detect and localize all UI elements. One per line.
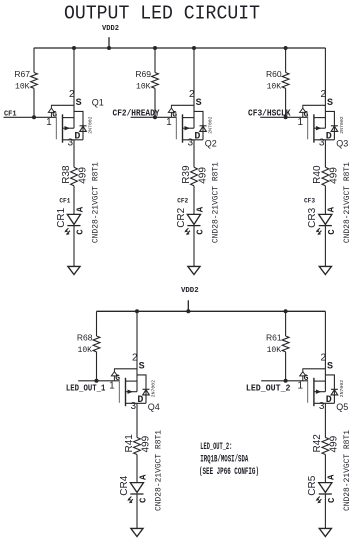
wire input net LED_OUT_1 [78,380,119,382]
svg-text:CND28-21VGCT R8T1: CND28-21VGCT R8T1 [155,430,164,511]
svg-text:499: 499 [77,167,88,184]
svg-text:1: 1 [298,381,304,392]
svg-text:10K: 10K [267,84,282,92]
svg-text:3: 3 [319,401,325,412]
wire CR4 cathode to ground [136,494,138,528]
wire CR2 cathode to ground [193,226,195,267]
svg-text:CND28-21VGCT R8T1: CND28-21VGCT R8T1 [92,162,101,243]
svg-text:1: 1 [46,117,52,128]
svg-text:S: S [327,98,333,109]
junction on VDD2 rail at source column [192,46,196,50]
wire VDD2 bottom rail [97,310,326,312]
svg-text:Q4: Q4 [148,402,160,412]
LED CR4 [119,474,149,503]
svg-text:499: 499 [329,435,340,452]
svg-text:Q3: Q3 [336,138,348,148]
svg-text:2: 2 [189,89,195,100]
svg-text:G: G [52,111,57,120]
svg-text:VDD2: VDD2 [102,25,119,33]
wire Q2 drain to R39 [193,140,195,168]
svg-text:D: D [194,132,200,143]
wire VDD2 rail to Q1 source [73,48,75,128]
svg-text:499: 499 [329,167,340,184]
ground [188,266,200,274]
wire VDD2 rail to Q4 source [136,311,138,391]
LED CR2 [176,206,206,235]
wire Q4 drain to R41 [136,403,138,437]
transistor Q1 N-MOSFET [46,89,104,148]
wire VDD2 rail to Q2 source [193,48,195,128]
LED CR3 [307,206,337,235]
svg-text:1: 1 [298,117,304,128]
svg-text:499: 499 [140,435,151,452]
svg-text:R61: R61 [266,332,282,342]
svg-text:LED_OUT_1: LED_OUT_1 [66,383,106,393]
svg-text:C: C [76,229,86,235]
node VDD2 power symbol (bottom) [181,287,199,313]
transistor Q5 N-MOSFET [298,353,349,412]
svg-text:S: S [139,362,145,373]
wire input net LED_OUT_2 [261,380,308,382]
svg-text:CF1: CF1 [4,111,17,119]
wire CR1 cathode to ground [73,226,75,267]
svg-text:10K: 10K [267,347,282,355]
svg-text:R40: R40 [312,165,323,184]
wire CR3 cathode to ground [324,226,326,267]
svg-text:R38: R38 [61,165,72,184]
wire Q1 drain to R38 [73,140,75,168]
svg-text:CF2/HREADY: CF2/HREADY [113,109,161,119]
svg-text:D: D [74,132,80,143]
svg-text:R69: R69 [135,69,151,79]
svg-text:CR2: CR2 [176,207,187,227]
svg-text:G: G [304,111,309,120]
transistor Q4 N-MOSFET [109,353,160,412]
svg-text:CR3: CR3 [307,207,318,227]
svg-text:D: D [326,395,332,406]
svg-text:CR1: CR1 [56,207,67,227]
svg-text:3: 3 [130,401,136,412]
svg-text:R39: R39 [181,165,192,184]
svg-text:C: C [139,497,149,503]
ground [319,528,331,536]
svg-text:CND28-21VGCT R8T1: CND28-21VGCT R8T1 [343,162,352,243]
junction of pull-up and input wire [284,379,288,383]
resistor R69 10K pull-up [135,48,158,117]
ground [319,266,331,274]
resistor R60 10K pull-up [266,48,289,117]
svg-text:2: 2 [132,353,138,364]
svg-text:S: S [196,98,202,109]
svg-text:CF3: CF3 [304,197,315,204]
svg-text:R67: R67 [14,69,30,79]
junction on VDD2 rail at source column [135,309,139,313]
svg-text:A: A [138,474,148,480]
wire R42 to CR5 anode [324,455,326,483]
transistor Q3 N-MOSFET [298,89,349,148]
resistor R42 499 series [312,434,340,455]
svg-text:IRQ1B/MOSI/SDA: IRQ1B/MOSI/SDA [200,454,248,466]
svg-text:499: 499 [197,167,208,184]
svg-text:3: 3 [319,137,325,148]
svg-text:CF3/HSCLK: CF3/HSCLK [248,109,291,119]
wire CR5 cathode to ground [324,494,326,528]
wire R40 to CR3 anode [324,186,326,215]
svg-text:VDD2: VDD2 [181,287,199,295]
transistor Q2 N-MOSFET [166,89,217,148]
svg-text:2: 2 [320,89,326,100]
svg-text:A: A [195,206,205,212]
wire input net CF2/HREADY [131,116,177,118]
wire input net CF1 [4,116,57,118]
resistor R61 10K pull-up [266,311,289,381]
svg-text:R42: R42 [312,434,323,453]
junction of pull-up and input wire [284,115,288,119]
LED CR5 [307,474,337,503]
svg-text:2N7002: 2N7002 [151,380,157,397]
svg-text:10K: 10K [15,84,30,92]
svg-text:CR5: CR5 [307,475,318,495]
wire R38 to CR1 anode [73,186,75,215]
svg-text:CND28-21VGCT R8T1: CND28-21VGCT R8T1 [343,430,352,511]
wire R41 to CR4 anode [136,455,138,483]
svg-text:D: D [137,395,143,406]
svg-text:LED_OUT_2:: LED_OUT_2: [200,442,232,453]
svg-text:G: G [304,374,309,383]
svg-text:G: G [172,111,177,120]
svg-text:2: 2 [320,353,326,364]
svg-text:A: A [327,206,337,212]
svg-text:2N7002: 2N7002 [339,116,345,133]
svg-text:3: 3 [187,137,193,148]
junction on VDD2 rail at resistor column [284,46,288,50]
resistor R41 499 series [124,434,152,455]
wire VDD2 rail to Q3 source [324,48,326,128]
junction on VDD2 rail at source column [72,46,76,50]
svg-text:2N7002: 2N7002 [88,116,94,133]
svg-text:R60: R60 [266,69,282,79]
svg-text:C: C [196,229,206,235]
resistor R39 499 series [181,165,209,186]
svg-text:1: 1 [166,117,172,128]
svg-text:LED_OUT_2: LED_OUT_2 [246,383,291,393]
svg-text:S: S [76,98,82,109]
svg-text:Q2: Q2 [205,138,217,148]
svg-text:(SEE JP66 CONFIG): (SEE JP66 CONFIG) [199,466,259,478]
resistor R40 499 series [312,165,340,186]
svg-text:10K: 10K [136,84,151,92]
ground [68,266,80,274]
svg-text:OUTPUT LED CIRCUIT: OUTPUT LED CIRCUIT [64,2,260,24]
svg-text:R68: R68 [77,332,93,342]
note LED_OUT_2 configuration text [199,442,259,478]
svg-text:3: 3 [67,137,73,148]
resistor R38 499 series [61,165,89,186]
svg-text:CND28-21VGCT R8T1: CND28-21VGCT R8T1 [212,162,221,243]
resistor R67 10K pull-up [14,48,37,117]
LED CR1 [56,206,86,235]
node VDD2 power symbol (top) [102,25,119,50]
junction on VDD2 rail at resistor column [153,46,157,50]
svg-text:2N7002: 2N7002 [339,380,345,397]
svg-text:Q5: Q5 [336,402,348,412]
svg-text:2: 2 [69,89,75,100]
svg-text:S: S [327,362,333,373]
junction of pull-up and input wire [32,115,36,119]
svg-text:2N7002: 2N7002 [208,116,214,133]
wire Q3 drain to R40 [324,140,326,168]
svg-text:A: A [75,206,85,212]
svg-text:CR4: CR4 [119,475,130,495]
wire Q5 drain to R42 [324,403,326,437]
svg-text:C: C [327,497,337,503]
junction of pull-up and input wire [95,379,99,383]
svg-text:CF1: CF1 [59,197,70,204]
svg-text:10K: 10K [78,347,93,355]
svg-text:C: C [327,229,337,235]
svg-text:G: G [115,374,120,383]
wire R39 to CR2 anode [193,186,195,215]
svg-text:D: D [326,132,332,143]
ground [131,528,143,536]
wire input net CF3/HSCLK [260,116,308,118]
svg-text:R41: R41 [124,434,135,453]
junction on VDD2 rail at resistor column [284,309,288,313]
wire VDD2 rail to Q5 source [324,311,326,391]
resistor R68 10K pull-up [77,311,100,381]
wire VDD2 top rail [34,47,326,49]
svg-text:A: A [327,474,337,480]
junction of pull-up and input wire [153,115,157,119]
svg-text:CF2: CF2 [177,197,188,204]
svg-text:Q1: Q1 [92,97,104,107]
svg-text:1: 1 [109,381,115,392]
